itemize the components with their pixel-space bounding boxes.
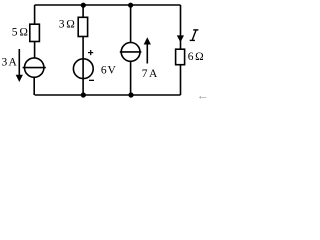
svg-text:3A: 3A	[2, 56, 18, 68]
node dot bottom 6V	[81, 92, 86, 97]
svg-text:3Ω: 3Ω	[59, 18, 75, 30]
wire right branch lower	[180, 65, 182, 95]
arrowhead 7A up	[144, 37, 151, 44]
current source 7A	[121, 43, 140, 62]
svg-text:6Ω: 6Ω	[188, 51, 204, 63]
resistor 3Ω	[78, 17, 87, 36]
svg-text:5Ω: 5Ω	[12, 26, 28, 38]
wire 3ohm branch upper	[82, 5, 84, 17]
arrowhead I down	[177, 35, 184, 42]
wire left branch middle	[34, 42, 36, 59]
node dot bottom 7A	[128, 92, 133, 97]
wire 3ohm branch lower	[82, 37, 84, 96]
wire 7A branch lower	[130, 61, 132, 95]
wire left branch upper	[34, 5, 36, 24]
arrowhead 3A down	[16, 75, 23, 82]
current source 3A	[25, 58, 44, 77]
wire bottom	[35, 94, 181, 96]
label plus 6V	[88, 52, 93, 53]
label I	[190, 30, 199, 41]
wire left branch lower	[33, 77, 35, 95]
arrow 7A annotation	[146, 44, 148, 64]
resistor 6Ω	[176, 49, 185, 64]
svg-text:6V: 6V	[101, 64, 117, 76]
voltage source 6V	[73, 59, 93, 79]
resistor 5Ω	[30, 24, 40, 41]
wire top	[35, 4, 181, 6]
svg-text:←: ←	[197, 89, 210, 103]
wire 7A branch upper	[130, 5, 132, 43]
node dot top 3ohm	[81, 3, 86, 8]
node dot top 7A	[128, 3, 133, 8]
label minus 6V	[89, 80, 94, 81]
arrow 3A annotation	[18, 49, 20, 75]
wire right branch upper	[180, 5, 182, 49]
svg-text:7A: 7A	[142, 68, 158, 80]
